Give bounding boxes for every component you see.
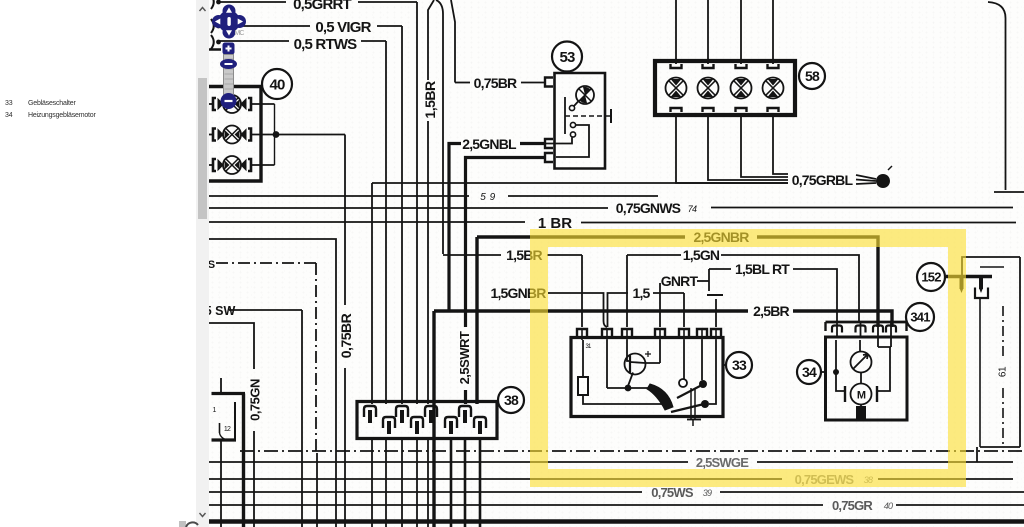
wire lamp bus vertical bbox=[274, 104, 276, 165]
lamp L40-1 right terminal bbox=[248, 98, 251, 110]
dash-dot 61 upper bbox=[1002, 306, 1004, 356]
terminal S33-6 bbox=[697, 329, 707, 337]
wire T7 up bbox=[715, 299, 717, 327]
transistor Q33 bbox=[625, 354, 646, 375]
lamp L40-3 bbox=[223, 156, 241, 174]
wire GRBL bus corner down bbox=[372, 182, 788, 184]
lamp L40-3 right terminal bbox=[248, 159, 251, 171]
connector plug row1 bbox=[211, 0, 214, 9]
zoom plus button bbox=[223, 43, 235, 55]
wire loop stub down bbox=[976, 447, 978, 462]
lamp L58-4 bbox=[763, 78, 784, 99]
wire M34 pin3 feed bbox=[877, 322, 879, 337]
pin M34-4 bbox=[886, 326, 896, 333]
component E58 box bbox=[655, 61, 795, 115]
bus 0,75GNWS right bbox=[711, 207, 1013, 209]
bus 1BR right bbox=[581, 222, 1016, 224]
wire E58-3 down bbox=[741, 115, 788, 177]
component M34 strip bbox=[826, 321, 907, 324]
wire lamp3 left stub bbox=[209, 164, 213, 166]
wire 0,5GRRT left segment bbox=[219, 1, 286, 3]
lamp L40-2 right terminal bbox=[248, 129, 251, 141]
junction lamp node bbox=[273, 131, 280, 138]
wire 1,5BR-T1 horizontal right bbox=[547, 254, 582, 256]
terminal S33-3 bbox=[622, 329, 632, 337]
zoom minus button bbox=[221, 93, 237, 109]
wire top-right drop bbox=[988, 2, 1006, 190]
wire X38 out 3 bbox=[401, 438, 403, 527]
contact open S33 bbox=[679, 379, 687, 387]
wire 0,5RTWS left segment bbox=[219, 40, 289, 42]
lamp L40-2 left terminal bbox=[213, 129, 216, 141]
terminal S53-1 bbox=[545, 78, 553, 87]
svg-text:53: 53 bbox=[559, 49, 575, 66]
motor M34 bbox=[851, 384, 872, 405]
lamp L58-3 bottom terminal bbox=[736, 108, 747, 112]
svg-text:0,5GRRT: 0,5GRRT bbox=[293, 0, 351, 13]
lamp L40-3 left terminal bbox=[213, 159, 216, 171]
pin X38-1 bbox=[364, 406, 376, 417]
wire GNRT drop to T4 bbox=[659, 283, 661, 327]
component X12 box bbox=[212, 392, 246, 395]
wire vertical 317 lower bbox=[316, 453, 318, 527]
zoom slider track bbox=[224, 55, 234, 100]
wire loop top bbox=[962, 257, 1020, 276]
wire lamp2 vertical lower bbox=[344, 368, 346, 527]
label 12 tick bbox=[219, 423, 221, 433]
wire 267 branch bbox=[980, 266, 1004, 268]
svg-text:5 9: 5 9 bbox=[480, 192, 495, 203]
wire 1,5GN left bbox=[627, 254, 681, 256]
zoom slider handle bbox=[220, 59, 237, 69]
motor bottom pin bbox=[860, 405, 862, 408]
connector plug row3 bbox=[211, 35, 214, 49]
wire 1,5BLRT drop bbox=[708, 269, 710, 291]
wire X12 right edge bbox=[242, 394, 245, 527]
lamp L40-1 left terminal bbox=[213, 98, 216, 110]
pin X38-7 bbox=[459, 406, 471, 417]
lamp L58-2 bbox=[698, 78, 719, 99]
lamp L40-1 bbox=[223, 95, 241, 113]
wire stub row4 bbox=[209, 48, 221, 51]
pin X38-3 bbox=[396, 406, 408, 417]
svg-text:12: 12 bbox=[224, 426, 231, 433]
wire 1,5BLRT left bbox=[709, 268, 731, 270]
wire E58-1 down bbox=[676, 115, 788, 183]
wire 2,5BR right bbox=[793, 311, 892, 327]
pin 152a bbox=[960, 276, 964, 289]
svg-text:38: 38 bbox=[504, 392, 519, 408]
svg-text:2,5SWRT: 2,5SWRT bbox=[457, 331, 472, 384]
component S33 box bbox=[571, 338, 723, 417]
component X38 box bbox=[357, 402, 497, 439]
wire 0,5VIGR right segment to corner bbox=[377, 25, 402, 27]
motor brushes bbox=[845, 386, 877, 402]
wire 2,5GNBL left+down bbox=[449, 144, 461, 312]
wire X38 out 7 bbox=[464, 438, 467, 527]
svg-text:61: 61 bbox=[998, 366, 1009, 377]
wire X12 out a bbox=[220, 440, 222, 527]
wire 0,5RTWS vertical drop bbox=[385, 41, 387, 404]
wire S53 internal L bbox=[556, 125, 589, 157]
lamp L58-2 top terminal bbox=[703, 64, 714, 68]
lamp L53 bbox=[576, 86, 594, 104]
op circle 33 bbox=[726, 352, 752, 378]
wire rheostat top bbox=[859, 340, 861, 352]
wire X38 out 2 bbox=[385, 438, 387, 527]
dash-dot vertical bbox=[315, 263, 317, 451]
wire lamp1 left stub bbox=[209, 103, 213, 105]
bus 59 right stub bbox=[994, 191, 1024, 193]
pin X38-8 bbox=[474, 417, 486, 428]
separation tick bbox=[707, 294, 723, 296]
pin M34-3 bbox=[873, 326, 883, 333]
terminal S33-7 bbox=[711, 329, 721, 337]
wire E58-4 down bbox=[773, 115, 788, 174]
wire lamp3 to bus bbox=[251, 164, 275, 166]
svg-text:0,5 VIGR: 0,5 VIGR bbox=[315, 19, 371, 36]
rheostat M34 bbox=[851, 352, 872, 373]
contact dot a bbox=[569, 105, 574, 110]
switch lever upper bbox=[677, 386, 700, 398]
wire 0,5VIGR vertical drop bbox=[401, 26, 403, 404]
junction M34 bbox=[833, 369, 839, 375]
wire Q33 emitter to node bbox=[628, 373, 633, 387]
wire X38 out 5 bbox=[427, 438, 429, 527]
pin M34-1 bbox=[832, 326, 842, 333]
svg-text:40: 40 bbox=[884, 501, 893, 511]
op circle 341 bbox=[906, 303, 934, 331]
lamp L58-3 bbox=[731, 78, 752, 99]
wire 1,5BR-T1 drop to terminal bbox=[581, 255, 583, 327]
switch link bbox=[691, 388, 695, 419]
wire 0,75BR to S53 bbox=[521, 82, 545, 84]
wire E58-1 feed bbox=[675, 0, 677, 64]
dash-dot bottom bus bbox=[240, 450, 1024, 452]
wire E58-2 down bbox=[708, 115, 788, 180]
lamp L58-1 bottom terminal bbox=[671, 108, 682, 112]
wire M34 pin1 feed bbox=[836, 322, 838, 337]
wire lamp1 to bus bbox=[251, 103, 275, 105]
resistor R33 bbox=[582, 340, 584, 377]
wire 1,5BR vertical upper bbox=[428, 0, 434, 80]
svg-text:1,5BR: 1,5BR bbox=[422, 81, 438, 119]
svg-text:0,75WS: 0,75WS bbox=[651, 485, 694, 500]
terminal S53-3 bbox=[545, 153, 553, 162]
lamp L58-1 bbox=[666, 78, 687, 99]
wire S53 internal vertical bbox=[564, 97, 566, 134]
pan control bbox=[218, 11, 240, 33]
wire S53 T2 internal bbox=[545, 138, 572, 144]
svg-text:0,75GRBL: 0,75GRBL bbox=[792, 172, 854, 188]
lamp L40-2 bbox=[223, 126, 241, 144]
wire 1,5 right bbox=[653, 292, 684, 294]
component S53 box bbox=[555, 73, 606, 169]
wire L53 internal slant bbox=[574, 101, 579, 107]
pin 152b bbox=[979, 276, 983, 289]
terminal S33-1 bbox=[577, 329, 587, 337]
svg-text:0,75GN: 0,75GN bbox=[248, 379, 263, 421]
wire S33 edge link bbox=[723, 364, 726, 366]
wire S53-3 lower bbox=[464, 390, 467, 404]
wire 0,5GRRT right segment to corner bbox=[358, 1, 417, 3]
lamp L58-4 bottom terminal bbox=[768, 108, 779, 112]
wire 1,5GN drop to T3 bbox=[626, 255, 628, 327]
lamp L58-1 top terminal bbox=[671, 64, 682, 68]
svg-text:1: 1 bbox=[212, 407, 216, 414]
op circle 40 bbox=[262, 69, 292, 99]
wire rheostat to motor bbox=[860, 373, 862, 385]
wire M34 pin4 feed bbox=[890, 322, 892, 337]
connector plug row2 bbox=[211, 19, 214, 33]
wire 2,5GNBR vertical bbox=[475, 237, 478, 404]
wire GNRT right bbox=[697, 280, 709, 282]
bus 0,75GR right bbox=[896, 504, 1024, 506]
wire X38 out 4 bbox=[416, 438, 418, 527]
wire 1,5BR-T1 vertical from top bbox=[436, 0, 443, 254]
dash-dot wire left bbox=[216, 262, 316, 264]
pin X38-5 bbox=[425, 406, 437, 417]
wire 0,75BR left of label bbox=[455, 82, 470, 84]
contact closed S33a bbox=[699, 380, 707, 388]
wire S53-3 corner bbox=[466, 158, 546, 328]
switch blade wedge bbox=[647, 384, 673, 410]
contact dot c bbox=[570, 132, 575, 137]
wire X12 top stub bbox=[220, 378, 222, 393]
pin X38-2 bbox=[383, 417, 395, 428]
wire lamp2 left stub bbox=[209, 134, 213, 136]
wire T5 internal bbox=[683, 340, 685, 379]
highlight overlay bbox=[530, 229, 966, 487]
wire 0,75GN corner bbox=[209, 323, 254, 369]
op circle 53 bbox=[552, 42, 582, 72]
wire X38 out 6 bbox=[450, 438, 453, 527]
wire 0,5GRRT vertical drop bbox=[416, 2, 418, 404]
wire E58-4 feed bbox=[772, 0, 774, 64]
wire 152 bar bbox=[946, 275, 992, 279]
lamp L58-3 top terminal bbox=[736, 64, 747, 68]
wire 2,5GNBR right bbox=[757, 237, 878, 327]
lamp L58-2 bottom terminal bbox=[703, 108, 714, 112]
wire 2,5GNBL to S53 bbox=[520, 142, 545, 145]
component M34 box bbox=[826, 337, 908, 420]
op circle 34 bbox=[797, 360, 821, 384]
svg-text:0,5 RTWS: 0,5 RTWS bbox=[294, 36, 358, 53]
component U40 box bbox=[209, 87, 261, 182]
wire T2 internal bbox=[606, 340, 608, 388]
wire X38 out 8 bbox=[479, 438, 482, 527]
pin X38-4 bbox=[411, 417, 423, 428]
splice dot GRBL bbox=[876, 174, 890, 188]
wire M34 pin2 feed bbox=[860, 322, 862, 337]
scrollbar bbox=[196, 0, 209, 527]
bus 59 right bbox=[508, 195, 658, 197]
dash-dot 61 lower bbox=[1002, 388, 1004, 447]
wire M34 pins right bbox=[878, 337, 891, 347]
wire loop left bbox=[979, 298, 981, 447]
bus 0,75GNWS left bbox=[209, 207, 608, 209]
wire T6 internal bbox=[701, 340, 703, 380]
wire M34 pin1 internal bbox=[835, 340, 837, 372]
wire X38 out 1 bbox=[371, 438, 373, 527]
op circle 58 bbox=[799, 63, 825, 89]
bus 1BR left bbox=[209, 221, 525, 223]
wire 0,5VIGR left segment bbox=[219, 25, 310, 27]
svg-text:0,75BR: 0,75BR bbox=[338, 313, 354, 358]
svg-text:0,75BR: 0,75BR bbox=[474, 75, 517, 91]
bus 0,75GEWS right bbox=[878, 478, 1013, 480]
pin X38-6 bbox=[445, 417, 457, 428]
bus 0,75GEWS left bbox=[209, 478, 782, 480]
corner artifact gray block bbox=[179, 521, 186, 527]
socket cup 152 bbox=[975, 288, 988, 299]
switch lever lower bbox=[671, 405, 702, 413]
wire loop bottom bbox=[980, 446, 1020, 448]
bus 0,75GR left bbox=[209, 504, 823, 506]
wire E58-2 feed bbox=[707, 0, 709, 64]
legend entry 33 bbox=[5, 100, 12, 107]
svg-text:5 SW: 5 SW bbox=[205, 304, 236, 318]
svg-text:40: 40 bbox=[269, 76, 285, 93]
wire corner y239 bbox=[209, 239, 336, 527]
svg-text:39: 39 bbox=[703, 488, 712, 498]
svg-text:0,75GR: 0,75GR bbox=[832, 498, 873, 513]
bus 0,75WS left bbox=[209, 491, 642, 493]
terminal S33-4 bbox=[655, 329, 665, 337]
wire lamp2 to corner bbox=[251, 134, 345, 136]
switch actuator dashed bbox=[565, 115, 611, 117]
wire node bus bbox=[607, 387, 652, 389]
bus bottom thick bbox=[209, 519, 1024, 524]
junction node S33 bbox=[625, 385, 632, 392]
wire 0,75GN lower bbox=[253, 431, 255, 527]
svg-text:74: 74 bbox=[688, 204, 697, 214]
bus 0,75WS right bbox=[720, 491, 1024, 493]
wire 1,5GNBR bbox=[548, 293, 607, 327]
lamp L58-4 top terminal bbox=[768, 64, 779, 68]
wire 1,5BLRT right bbox=[793, 269, 837, 322]
svg-text:2,5GNBL: 2,5GNBL bbox=[462, 136, 517, 152]
wire 0,5RTWS right segment to corner bbox=[361, 40, 386, 42]
wire loop right bbox=[1019, 257, 1021, 447]
contact dot b bbox=[570, 122, 575, 127]
bus 59 left bbox=[209, 195, 469, 197]
contact closed S33b bbox=[701, 400, 709, 408]
wire GRBL converge bbox=[856, 175, 876, 184]
svg-text:MC: MC bbox=[234, 30, 244, 37]
bus 2,5SWGE right bbox=[757, 461, 1013, 463]
legend entry 34 bbox=[5, 112, 12, 119]
wire 1,5BR-T1 horizontal left bbox=[443, 254, 501, 256]
wire T5 drop bbox=[683, 293, 685, 327]
svg-text:0,75GNWS: 0,75GNWS bbox=[616, 200, 681, 216]
terminal S53-2 bbox=[545, 139, 553, 148]
wire 2,5GNBR horizontal bbox=[477, 235, 685, 238]
wire 2,5BR drop left bbox=[432, 311, 435, 527]
svg-text:58: 58 bbox=[805, 68, 820, 84]
op circle 152 bbox=[917, 263, 945, 291]
op circle 38 bbox=[498, 387, 524, 413]
wire T7 internal bbox=[709, 340, 716, 404]
wire lamp2 vertical upper bbox=[344, 135, 346, 306]
wire 2,5BR horizontal bbox=[434, 309, 748, 312]
corner artifact icon arc bbox=[184, 519, 200, 527]
wire 1,5GN right bbox=[721, 255, 859, 322]
wire 0,75BR vertical up bbox=[451, 0, 455, 83]
wire 1,5 up from T2 bbox=[608, 293, 629, 327]
pin M34-2 bbox=[856, 326, 866, 333]
wire M34 circle link bbox=[821, 371, 825, 373]
wire M34 left brush feed bbox=[836, 372, 845, 391]
bus 2,5SWGE left bbox=[209, 461, 688, 463]
terminal S33-5 bbox=[679, 329, 689, 337]
terminal S33-2 bbox=[602, 329, 612, 337]
wire 1,5BR vertical lower bbox=[427, 121, 429, 404]
wire E58-3 feed bbox=[740, 0, 742, 64]
